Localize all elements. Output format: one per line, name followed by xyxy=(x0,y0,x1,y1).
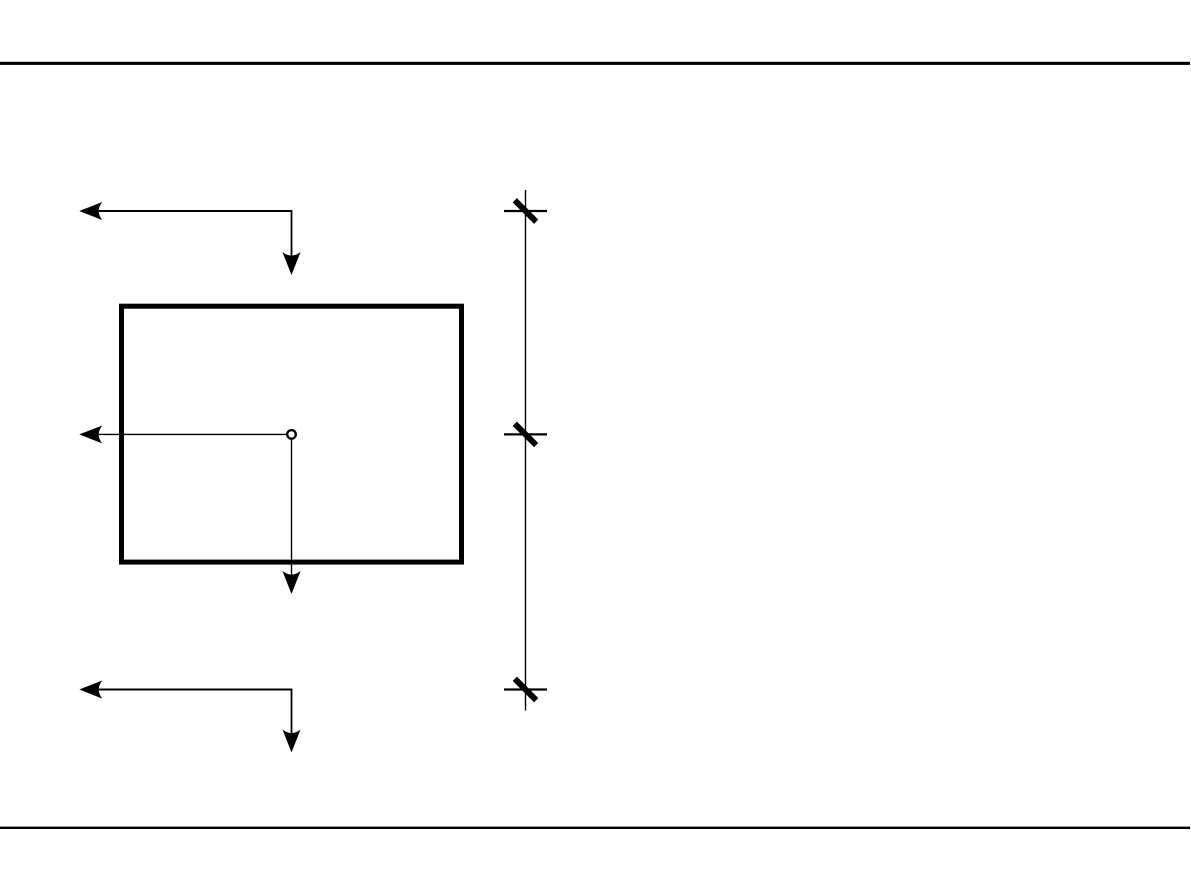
wire: top elbow leader horizontal xyxy=(99,210,292,212)
arrowhead: center down xyxy=(282,571,300,594)
arrowhead: top elbow left xyxy=(79,202,102,220)
arrowhead: center left xyxy=(79,425,102,443)
tick mark top: cross line xyxy=(504,210,547,212)
wire: bottom elbow leader horizontal xyxy=(99,688,292,690)
wire: bottom elbow leader vertical xyxy=(291,689,293,734)
tick mark bottom: cross line xyxy=(504,688,547,690)
bottom border rule xyxy=(0,827,1190,829)
dimension line vertical xyxy=(525,190,527,711)
tick mark bottom: slash xyxy=(515,679,536,700)
node: center point circle xyxy=(287,430,296,439)
arrowhead: bottom elbow left xyxy=(79,681,102,699)
tick mark middle: slash xyxy=(515,424,536,445)
wire: center vertical thin leader xyxy=(291,440,293,575)
arrowhead: bottom elbow down xyxy=(282,730,300,753)
arrowhead: top elbow down xyxy=(282,252,300,275)
tick mark top: slash xyxy=(515,200,536,221)
tick mark middle: cross line xyxy=(504,433,547,435)
rectangle (plan element) xyxy=(122,306,462,562)
wire: top elbow leader vertical xyxy=(291,210,293,256)
wire: center horizontal thin leader xyxy=(99,433,287,435)
top border rule xyxy=(0,62,1190,65)
